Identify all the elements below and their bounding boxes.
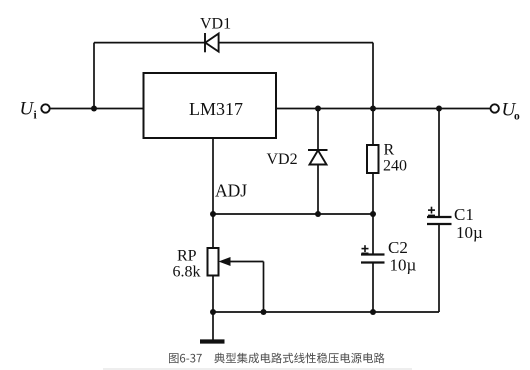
polarity plus of C1	[428, 207, 435, 216]
wire top drop	[372, 43, 374, 109]
svg-text:i: i	[34, 110, 38, 122]
wire top right	[219, 42, 373, 44]
label Ui	[20, 99, 38, 122]
svg-text:C1: C1	[454, 205, 474, 224]
svg-text:10µ: 10µ	[390, 256, 417, 275]
ground	[200, 339, 225, 343]
wire input rail	[50, 108, 144, 110]
node C1 top	[436, 106, 442, 112]
svg-text:RP: RP	[177, 248, 197, 265]
svg-text:240: 240	[383, 158, 407, 175]
diode VD1	[205, 33, 219, 52]
label C1 10u	[454, 205, 483, 242]
label VD1	[200, 16, 231, 33]
wire ADJ rail	[213, 213, 373, 215]
polarity plus of C2	[362, 245, 369, 253]
wire input riser	[93, 43, 95, 109]
svg-text:10µ: 10µ	[456, 223, 483, 242]
svg-text:LM317: LM317	[189, 99, 243, 119]
node R top	[370, 106, 376, 112]
capacitor C2	[372, 214, 374, 255]
node VD2 top	[315, 106, 321, 112]
terminal Ui	[41, 104, 49, 112]
wiper arrow of RP	[219, 257, 231, 266]
wire output rail	[276, 108, 491, 110]
svg-text:U: U	[20, 99, 35, 120]
potentiometer RP	[208, 248, 219, 276]
node ground junction	[210, 309, 216, 315]
wire ADJ pin	[212, 138, 214, 248]
IC U1 LM317	[144, 73, 277, 138]
wire wiper drop	[263, 262, 265, 313]
label VD2	[267, 151, 298, 168]
label RP 6.8k	[173, 248, 201, 281]
node wiper junction	[261, 309, 267, 315]
label Uo	[502, 100, 521, 123]
label R 240	[383, 142, 407, 175]
node input junction	[91, 106, 97, 112]
capacitor C1	[438, 109, 440, 218]
svg-text:VD1: VD1	[200, 16, 231, 33]
label C2 10u	[388, 238, 417, 275]
caption figure 6-37	[169, 353, 385, 364]
terminal Uo	[491, 104, 499, 112]
wire bottom rail	[213, 311, 439, 313]
node ADJ junction	[210, 211, 216, 217]
wire top left	[94, 42, 205, 44]
separator line bottom	[103, 368, 412, 370]
diode VD2	[317, 109, 319, 151]
node C2 bottom	[370, 309, 376, 315]
svg-text:o: o	[514, 111, 520, 123]
svg-text:C2: C2	[388, 238, 408, 257]
svg-text:ADJ: ADJ	[215, 181, 247, 201]
wire ground stub	[212, 312, 214, 340]
node R bottom	[370, 211, 376, 217]
svg-text:VD2: VD2	[267, 151, 298, 168]
svg-text:R: R	[384, 142, 395, 159]
node VD2 bottom	[315, 211, 321, 217]
resistor R	[372, 109, 374, 146]
label ADJ	[215, 181, 247, 201]
svg-text:6.8k: 6.8k	[173, 264, 201, 281]
